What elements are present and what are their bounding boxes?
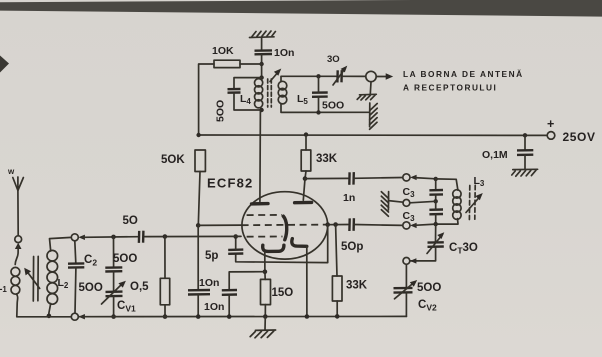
trimmer capacitor CT30: [410, 224, 478, 261]
node 10n2 bottom: [227, 314, 232, 319]
L1/L2 core (adjustable coupling): [24, 256, 40, 301]
resistor 50K: [161, 150, 205, 172]
node 500 top: [316, 74, 320, 78]
wire 10K left lead down to B+ rail: [199, 64, 214, 135]
terminal (tuned circuit top): [71, 234, 85, 241]
svg-text:L1: L1: [0, 281, 7, 294]
svg-text:5O: 5O: [123, 215, 138, 227]
L3 core (adjustable): [466, 185, 483, 219]
terminal (antenna input): [15, 236, 22, 265]
anode (pentode): [252, 110, 269, 204]
terminal +250V: [547, 117, 596, 144]
svg-text:33K: 33K: [346, 280, 368, 292]
terminal (osc coil tap): [389, 200, 410, 207]
wire bottom rail: [17, 315, 407, 317]
svg-text:ECF82: ECF82: [207, 176, 253, 191]
svg-text:C3: C3: [403, 210, 416, 223]
resistor 33K (grid leak): [332, 225, 367, 317]
wire grid rail: [83, 235, 242, 238]
node 33K bottom: [335, 314, 340, 319]
cathode (triode): [292, 239, 307, 247]
svg-text:5OO: 5OO: [79, 282, 103, 294]
resistor 33K (triode anode load): [301, 135, 338, 179]
resistor (AGC): [160, 237, 169, 317]
ground (main): [250, 317, 275, 338]
svg-text:5p: 5p: [205, 250, 218, 262]
svg-text:C3: C3: [403, 186, 416, 199]
node grid/33K: [333, 222, 338, 227]
node 10K/10n junction: [259, 62, 263, 66]
capacitor C3 (upper): [403, 179, 444, 201]
node C3 bottom: [434, 222, 438, 226]
anode (triode): [295, 179, 312, 203]
wire 5p to grid rail: [235, 237, 237, 250]
wire L1 to rail: [17, 294, 18, 317]
svg-text:L5: L5: [297, 93, 308, 106]
node B+ 0,1M: [523, 133, 527, 137]
node 150 bottom: [263, 314, 268, 319]
svg-text:L2: L2: [58, 277, 69, 290]
scan top dark bar: [0, 0, 602, 17]
capacitor 500 (across L4): [215, 89, 241, 122]
wire B+ rail 250V: [199, 134, 548, 136]
svg-text:1On: 1On: [204, 301, 224, 313]
svg-text:5OO: 5OO: [113, 253, 137, 265]
svg-text:CV1: CV1: [117, 300, 136, 314]
capacitor 50p: [341, 218, 363, 253]
wire 1n to terminal: [354, 177, 403, 180]
wire L5 top: [281, 76, 336, 81]
chassis hatched bar (antenna output): [370, 103, 378, 129]
capacitor 10n (top decoupling): [255, 47, 295, 59]
node L4 top: [259, 75, 263, 79]
wire L2 top: [50, 237, 72, 251]
node 5p top: [233, 234, 238, 239]
capacitor C2: [68, 241, 103, 313]
svg-text:33K: 33K: [316, 153, 338, 165]
resistor 10K: [212, 45, 240, 68]
svg-text:CV2: CV2: [418, 299, 437, 313]
capacitor 10n (screen bypass): [188, 277, 219, 295]
svg-text:A RECEPTORULUI: A RECEPTORULUI: [403, 83, 497, 93]
ground (top, above 10n): [250, 31, 276, 38]
node C3 top: [434, 177, 438, 181]
grid g2/triode-grid dashed: [242, 224, 329, 227]
wire g2 branch down to 10n: [197, 225, 199, 289]
resistor 150: [261, 279, 294, 304]
svg-text:5OK: 5OK: [161, 154, 185, 166]
tube ECF82 envelope: [207, 176, 328, 260]
node L2 bottom: [47, 314, 52, 319]
screen arc electrode: [283, 216, 286, 240]
capacitor C3 (lower): [403, 201, 444, 224]
cathode (pentode): [263, 245, 284, 251]
node R top: [163, 234, 168, 239]
svg-text:3O: 3O: [327, 54, 340, 65]
capacitor 50 (series): [123, 215, 144, 243]
wire middle tap to terminal: [410, 201, 436, 203]
svg-text:5OO: 5OO: [215, 100, 227, 122]
chassis hatched bar (tap ground): [381, 192, 388, 217]
variable capacitor CV1: [102, 237, 150, 317]
svg-text:w: w: [7, 167, 15, 176]
inductor L2: [47, 250, 69, 304]
node L4 bottom: [259, 108, 263, 112]
wire 10n to junction: [261, 55, 263, 78]
wire 50p to terminal: [354, 224, 403, 227]
ground (under 0,1M): [512, 169, 538, 176]
inductor L4 (primary): [240, 79, 263, 108]
wire feedback to 5p: [236, 225, 328, 263]
svg-text:5Op: 5Op: [341, 241, 363, 253]
scan left edge triangle: [0, 56, 9, 73]
svg-text:CT3O: CT3O: [449, 242, 478, 256]
ground (under antenna terminal): [357, 82, 376, 100]
terminal (osc CV2): [403, 258, 416, 265]
wire g2 to tube: [198, 224, 241, 226]
node B+ 33K: [304, 132, 308, 136]
capacitor 1n: [343, 172, 355, 204]
svg-text:1OK: 1OK: [212, 45, 234, 57]
svg-text:15O: 15O: [272, 287, 294, 299]
svg-text:O,5: O,5: [130, 281, 149, 293]
wire triode cathode lead: [306, 246, 308, 316]
wire triode grid: [326, 224, 348, 226]
node CV1 top: [111, 235, 116, 240]
transformer core (adjustable): [268, 69, 282, 108]
svg-text:+: +: [547, 117, 554, 131]
node C3 middle: [434, 199, 438, 203]
node R bottom: [163, 314, 168, 319]
svg-text:5OO: 5OO: [322, 100, 344, 112]
node B+ left: [196, 133, 200, 137]
capacitor 500 (across L5): [312, 93, 344, 112]
svg-text:LA BORNA DE ANTENĂ: LA BORNA DE ANTENĂ: [403, 69, 524, 79]
node grid/feedback: [325, 222, 330, 227]
antenna: [13, 177, 24, 236]
wire 10K right lead: [240, 63, 262, 65]
inductor L1: [0, 267, 20, 294]
svg-text:O,1M: O,1M: [482, 149, 508, 161]
node cathode junction: [263, 269, 268, 274]
wire 150 to rail: [264, 305, 266, 317]
svg-text:L4: L4: [240, 93, 251, 106]
grid g1 dashed: [247, 236, 283, 238]
svg-text:1On: 1On: [274, 47, 294, 59]
svg-text:5OO: 5OO: [417, 282, 441, 294]
text LA BORNA DE ANTENA: [403, 69, 524, 93]
node triode cathode bottom: [305, 314, 310, 319]
terminal (to receiver antenna): [366, 71, 393, 81]
variable capacitor CV2: [394, 264, 442, 316]
node 10n1 bottom: [196, 314, 201, 319]
wire L3 top: [436, 179, 458, 190]
wire 10n bypass branch: [229, 272, 265, 290]
wire L3 bottom: [436, 219, 458, 225]
grid g3 dashed: [247, 214, 282, 216]
wire L5 bottom: [281, 104, 370, 113]
capacitor 5p: [205, 250, 243, 262]
node 500 bottom: [316, 110, 320, 114]
terminal (osc coil top): [403, 174, 436, 181]
capacitor 0,1M (decoupling): [482, 135, 533, 169]
wire 500 leads: [318, 76, 320, 112]
terminal (tuned circuit bottom): [71, 313, 85, 320]
node triode anode: [303, 176, 308, 181]
wire 50K to g2: [198, 172, 200, 226]
wire pentode cathode lead: [264, 253, 266, 280]
wire ground to 10n: [261, 38, 263, 51]
inductor L3: [453, 175, 485, 219]
svg-text:1On: 1On: [199, 277, 219, 289]
wire L4 top branch: [234, 78, 262, 89]
svg-text:25OV: 25OV: [563, 130, 596, 144]
inductor L5 (secondary): [278, 81, 308, 106]
svg-text:C2: C2: [84, 254, 97, 268]
wire 500 to L4 bottom: [234, 93, 262, 110]
svg-text:1n: 1n: [343, 192, 355, 204]
wire L2 bottom: [49, 304, 51, 317]
wire anode to 1n: [305, 177, 348, 179]
capacitor 10n (cathode bypass): [204, 290, 237, 313]
trimmer capacitor 30: [327, 54, 347, 85]
node g2 junction: [196, 223, 201, 228]
wire 10n to ground rail: [197, 295, 199, 317]
terminal (osc grid): [403, 222, 436, 229]
wire 30 to antenna terminal: [342, 75, 366, 77]
wire 10n to rail: [228, 295, 230, 317]
node CV1 bottom: [111, 314, 116, 319]
